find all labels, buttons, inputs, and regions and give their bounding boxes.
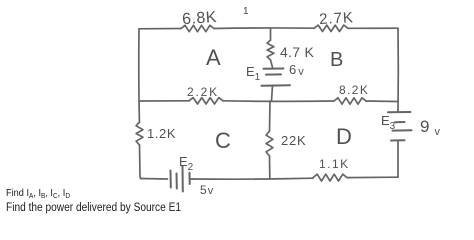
svg-text:8.2K: 8.2K bbox=[339, 83, 369, 97]
svg-text:E3: E3 bbox=[381, 113, 396, 132]
svg-text:6.8K: 6.8K bbox=[182, 9, 218, 28]
svg-text:9v: 9v bbox=[420, 117, 440, 138]
svg-text:1.1K: 1.1K bbox=[319, 157, 350, 171]
svg-text:Find IA, IB, IC, ID: Find IA, IB, IC, ID bbox=[6, 188, 70, 200]
svg-text:E2: E2 bbox=[179, 154, 194, 173]
svg-text:E1: E1 bbox=[246, 64, 261, 83]
svg-text:1.2K: 1.2K bbox=[147, 126, 176, 141]
svg-text:1: 1 bbox=[243, 6, 249, 17]
svg-text:6v: 6v bbox=[289, 62, 304, 78]
svg-text:B: B bbox=[330, 49, 343, 71]
svg-text:Find the power delivered by So: Find the power delivered by Source E1 bbox=[6, 202, 181, 214]
svg-text:2.2K: 2.2K bbox=[187, 85, 219, 99]
svg-text:22K: 22K bbox=[281, 133, 307, 148]
svg-text:C: C bbox=[215, 128, 231, 153]
svg-text:2.7K: 2.7K bbox=[319, 9, 355, 28]
svg-text:5v: 5v bbox=[200, 183, 214, 197]
svg-text:4.7 K: 4.7 K bbox=[280, 44, 315, 60]
svg-text:D: D bbox=[336, 124, 352, 149]
svg-text:A: A bbox=[206, 45, 221, 70]
